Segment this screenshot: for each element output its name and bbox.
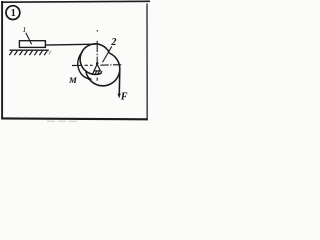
svg-text:F: F xyxy=(120,91,128,102)
pulley wheel 2 xyxy=(80,44,109,75)
ground hatch faint tail xyxy=(49,51,51,54)
support base hatching xyxy=(92,71,102,74)
pin support triangle xyxy=(94,64,100,71)
horizontal centerline xyxy=(72,64,121,67)
svg-text:1: 1 xyxy=(22,25,26,34)
plate number circle xyxy=(6,6,20,20)
rope hanging to F xyxy=(118,69,121,94)
leader line to block xyxy=(26,33,32,44)
ground line xyxy=(10,49,49,51)
moment arrowhead xyxy=(88,77,92,80)
force F arrowhead xyxy=(118,94,121,99)
moment arc M xyxy=(78,52,89,79)
svg-text:1: 1 xyxy=(11,8,16,19)
block 1 xyxy=(19,41,45,48)
scan dash artifact below frame xyxy=(47,120,77,122)
pulley outer rim arc xyxy=(86,53,120,86)
vertical centerline xyxy=(96,30,98,81)
leader line from 2 xyxy=(103,46,112,62)
svg-text:M: M xyxy=(68,75,78,85)
axle pin dot xyxy=(96,62,99,65)
svg-text:2: 2 xyxy=(110,37,116,48)
border frame xyxy=(1,1,150,120)
ground hatching xyxy=(9,51,47,55)
rope from block to pulley xyxy=(45,43,95,46)
